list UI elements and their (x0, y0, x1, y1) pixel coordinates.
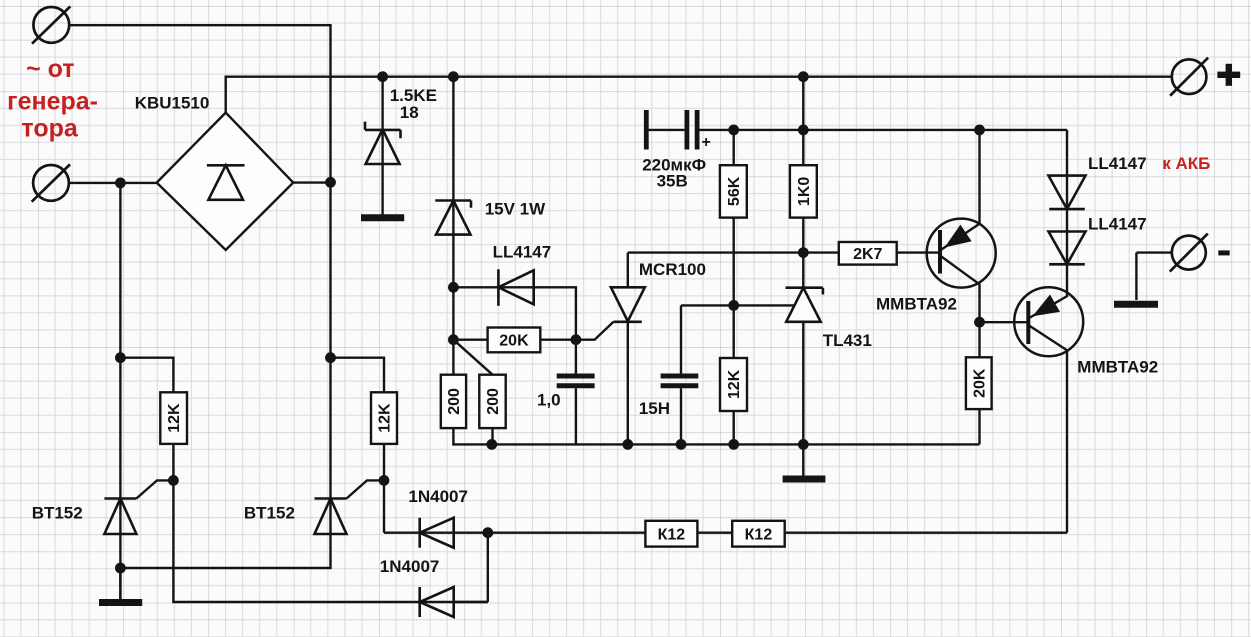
svg-text:тора: тора (21, 115, 78, 143)
svg-text:20K: 20K (499, 333, 529, 350)
svg-text:генера-: генера- (7, 88, 98, 116)
svg-text:к АКБ: к АКБ (1162, 154, 1210, 173)
svg-text:1,0: 1,0 (537, 391, 561, 410)
svg-text:2K7: 2K7 (853, 246, 882, 263)
svg-text:200: 200 (485, 388, 502, 415)
svg-text:35В: 35В (657, 172, 688, 191)
svg-text:15H: 15H (639, 399, 670, 418)
svg-text:56K: 56K (726, 176, 743, 206)
svg-text:12K: 12K (726, 369, 743, 399)
svg-text:18: 18 (400, 103, 419, 122)
svg-text:LL4147: LL4147 (1088, 214, 1147, 233)
svg-text:BT152: BT152 (244, 503, 295, 522)
svg-text:1K0: 1K0 (796, 177, 813, 206)
svg-text:К12: К12 (745, 526, 773, 543)
svg-text:15V 1W: 15V 1W (485, 199, 546, 218)
svg-text:12K: 12K (166, 403, 183, 433)
svg-text:1N4007: 1N4007 (408, 487, 468, 506)
svg-text:200: 200 (446, 388, 463, 415)
svg-text:1N4007: 1N4007 (380, 557, 440, 576)
svg-text:12K: 12K (377, 403, 394, 433)
svg-text:LL4147: LL4147 (493, 243, 552, 262)
svg-text:~ от: ~ от (26, 55, 74, 83)
svg-text:20K: 20K (971, 368, 988, 398)
svg-text:К12: К12 (658, 526, 686, 543)
svg-text:BT152: BT152 (32, 504, 83, 523)
svg-text:MMBTA92: MMBTA92 (876, 295, 957, 314)
svg-text:MMBTA92: MMBTA92 (1077, 358, 1158, 377)
svg-text:LL4147: LL4147 (1088, 154, 1147, 173)
svg-text:MCR100: MCR100 (639, 260, 706, 279)
svg-text:TL431: TL431 (823, 331, 872, 350)
svg-text:KBU1510: KBU1510 (135, 94, 210, 113)
svg-text:+: + (702, 134, 711, 151)
